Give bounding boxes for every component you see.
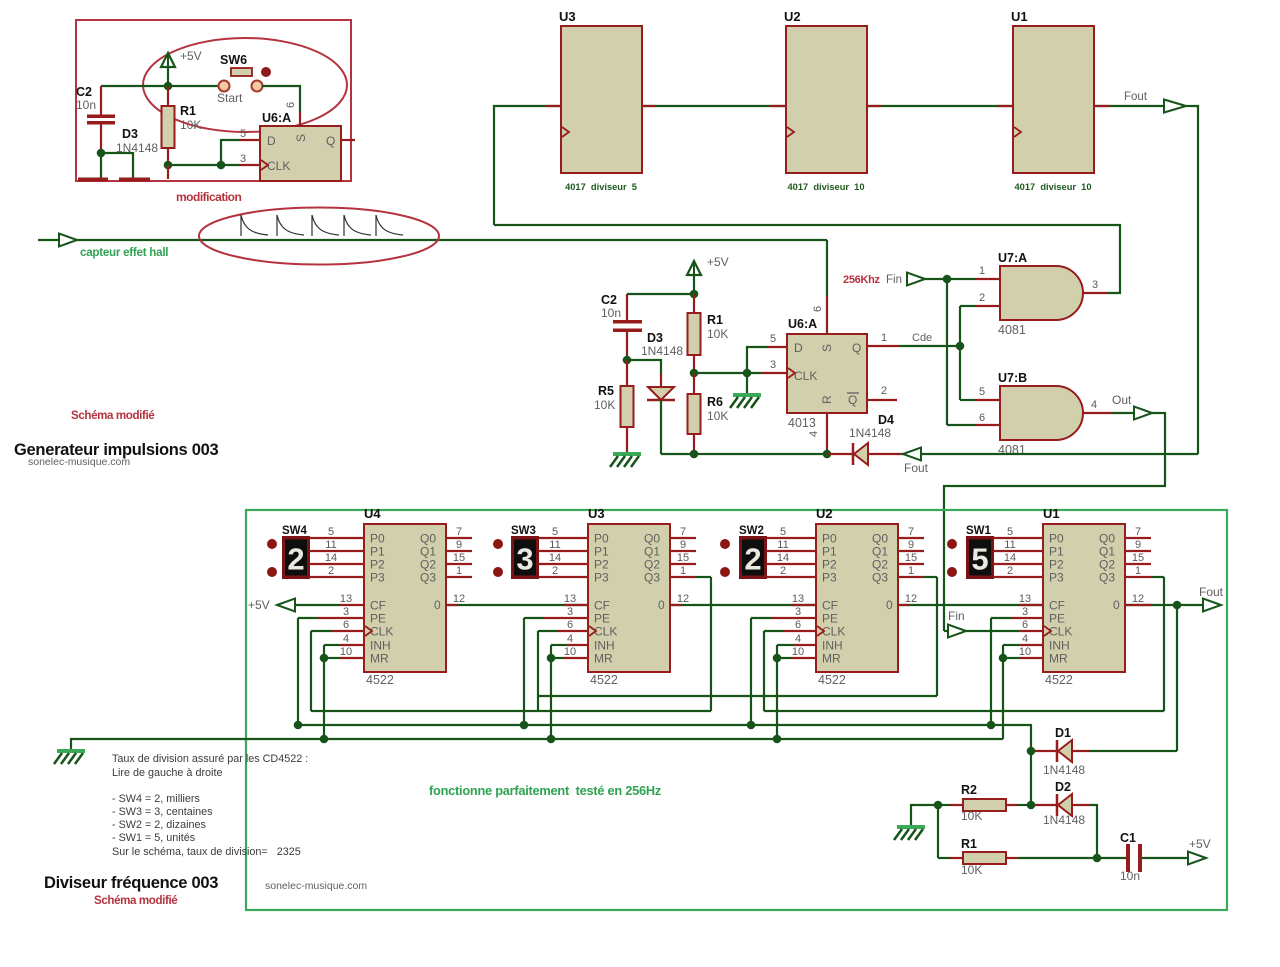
- wire U1 INH: [1002, 645, 1004, 739]
- svg-text:+5V: +5V: [707, 255, 729, 269]
- svg-text:Q2: Q2: [644, 558, 660, 572]
- wire U3 4017 to U2 4017: [641, 105, 786, 107]
- svg-text:P2: P2: [370, 558, 385, 572]
- svg-text:CLK: CLK: [794, 369, 817, 383]
- svg-text:P0: P0: [594, 532, 609, 546]
- svg-text:4522: 4522: [366, 673, 394, 687]
- svg-text:3: 3: [795, 606, 801, 618]
- arrow Fin: [948, 625, 966, 638]
- svg-text:15: 15: [677, 552, 689, 564]
- U1 clock input mark: [1014, 127, 1021, 137]
- svg-text:U6:A: U6:A: [788, 317, 817, 331]
- svg-text:3: 3: [516, 542, 533, 577]
- wire Q output stub (upper U6:A): [341, 139, 355, 141]
- wire U4 INH: [323, 645, 325, 739]
- svg-text:1: 1: [881, 332, 887, 344]
- wire U3 CLK: [537, 631, 539, 711]
- svg-text:5: 5: [971, 542, 988, 577]
- counter U4 CD4522 box: [364, 524, 446, 672]
- junction 256KHz branch: [943, 275, 952, 284]
- ground below R5: [613, 452, 641, 456]
- svg-text:10K: 10K: [961, 809, 982, 823]
- svg-text:S: S: [294, 134, 308, 142]
- svg-text:11: 11: [325, 539, 336, 551]
- junction Cde node: [956, 342, 965, 351]
- svg-text:CF: CF: [822, 599, 838, 613]
- wire ground rail MR/INH: [71, 739, 1003, 749]
- svg-text:U4: U4: [364, 506, 381, 521]
- svg-text:10: 10: [792, 646, 804, 658]
- svg-text:MR: MR: [370, 652, 389, 666]
- arrow Fout top output: [1164, 100, 1186, 113]
- svg-text:0: 0: [886, 598, 893, 612]
- svg-text:6: 6: [343, 619, 349, 631]
- arrow +5V (left): [277, 599, 295, 612]
- svg-text:Out: Out: [1112, 393, 1132, 407]
- junction U4 PE on PE rail: [294, 721, 303, 730]
- svg-text:4017 diviseur 10: 4017 diviseur 10: [1014, 182, 1091, 192]
- svg-text:sonelec-musique.com: sonelec-musique.com: [28, 456, 130, 468]
- arrow 256KHz input: [907, 273, 925, 286]
- svg-text:Taux de division assuré par le: Taux de division assuré par les CD4522 :: [112, 753, 308, 765]
- ground symbol left (divider): [57, 749, 85, 753]
- wire Cde to U7:A pin2 and U7:B pin5: [959, 306, 961, 400]
- junction C2 bottom / R5 top: [623, 356, 632, 365]
- red ellipse around pulse waveform: [199, 208, 439, 265]
- svg-text:Diviseur fréquence 003: Diviseur fréquence 003: [44, 874, 218, 892]
- svg-text:CF: CF: [370, 599, 386, 613]
- junction D1 on PE drop: [1027, 747, 1036, 756]
- svg-text:Q0: Q0: [420, 532, 436, 546]
- wire cascade U2.Q3 to U3.CLK: [538, 695, 937, 697]
- wire capteur effet hall signal line: [38, 239, 827, 241]
- wire U7:B output to Out arrow: [1083, 412, 1112, 414]
- svg-text:Q3: Q3: [420, 571, 436, 585]
- svg-text:13: 13: [792, 593, 804, 605]
- svg-text:10K: 10K: [961, 863, 982, 877]
- svg-text:Start: Start: [217, 91, 243, 105]
- SW1 contact dots: [947, 539, 957, 549]
- wire U2 INH: [776, 645, 778, 739]
- svg-text:11: 11: [1004, 539, 1015, 551]
- svg-text:2: 2: [552, 565, 558, 577]
- svg-text:SW6: SW6: [220, 53, 247, 67]
- resistor R1 (upper-left): [167, 86, 169, 106]
- svg-text:12: 12: [1132, 593, 1144, 605]
- wire Out down to Fin feed: [944, 413, 1165, 631]
- svg-text:2: 2: [287, 542, 304, 577]
- svg-text:P1: P1: [370, 545, 385, 559]
- resistor R2: [938, 804, 950, 806]
- wire Fout node down to D1: [1176, 605, 1178, 751]
- svg-text:Q2: Q2: [1099, 558, 1115, 572]
- svg-text:14: 14: [549, 552, 561, 564]
- junction R1/C1 node: [1093, 854, 1102, 863]
- svg-text:6: 6: [795, 619, 801, 631]
- svg-text:- SW2 = 2, dizaines: - SW2 = 2, dizaines: [112, 819, 207, 831]
- arrow Fout (pointing left): [903, 453, 1198, 455]
- junction C2 bottom: [97, 149, 106, 158]
- svg-text:4: 4: [343, 633, 349, 645]
- svg-text:CF: CF: [594, 599, 610, 613]
- junction U1 PE on PE rail: [987, 721, 996, 730]
- svg-text:U3: U3: [559, 9, 576, 24]
- wire 256KHz to U7:A pin1: [925, 278, 975, 280]
- wire from U7:A output feedback up-left to U3 4017 clock input: [494, 106, 561, 225]
- switch SW1 thumbwheel: [966, 536, 994, 579]
- svg-text:Q3: Q3: [872, 571, 888, 585]
- wires SW2 to U2 P0-P3: [766, 537, 816, 539]
- wire up to D pin (middle): [747, 347, 768, 373]
- wire R2 node to ground: [911, 805, 938, 825]
- wire R1 bottom to CLK: [168, 164, 240, 166]
- svg-text:U1: U1: [1011, 9, 1028, 24]
- arrow hall input: [59, 234, 77, 247]
- svg-text:U2: U2: [816, 506, 833, 521]
- junction CLK/D wire: [217, 161, 226, 170]
- counter U2 CD4522 box: [816, 524, 898, 672]
- capacitor C2 (middle): [626, 294, 628, 320]
- wire Qbar stub: [867, 399, 897, 401]
- svg-text:MR: MR: [822, 652, 841, 666]
- svg-text:PE: PE: [370, 612, 386, 626]
- svg-text:P2: P2: [594, 558, 609, 572]
- wire U3 0 output to U2 CF: [670, 604, 816, 606]
- svg-text:Fin: Fin: [886, 274, 902, 286]
- wire Fin from gates into divider: [944, 630, 948, 632]
- svg-text:1: 1: [680, 565, 686, 577]
- SW4 contact dots: [267, 539, 277, 549]
- svg-text:11: 11: [777, 539, 788, 551]
- wire U1 PE: [990, 618, 992, 725]
- svg-text:R1: R1: [180, 104, 196, 118]
- svg-text:5: 5: [552, 526, 558, 538]
- resistor R5: [626, 360, 628, 386]
- svg-text:R1: R1: [707, 313, 723, 327]
- counter U3 CD4522 box: [588, 524, 670, 672]
- svg-text:Fout: Fout: [1199, 585, 1224, 599]
- svg-text:15: 15: [1132, 552, 1144, 564]
- svg-text:1: 1: [456, 565, 462, 577]
- svg-text:1N4148: 1N4148: [1043, 763, 1085, 777]
- svg-text:Fout: Fout: [1124, 91, 1148, 103]
- svg-text:9: 9: [456, 539, 462, 551]
- svg-text:P2: P2: [1049, 558, 1064, 572]
- svg-text:10K: 10K: [707, 327, 728, 341]
- wire U2 PE: [750, 618, 752, 725]
- svg-text:10: 10: [1019, 646, 1031, 658]
- wire SW6 to U6:A S pin (upper): [262, 86, 300, 112]
- wires U3 Q0-Q2 stubs: [670, 537, 696, 539]
- wires U1 Q0-Q2 stubs: [1125, 537, 1151, 539]
- svg-text:Q0: Q0: [872, 532, 888, 546]
- wire U3 MR: [564, 657, 588, 659]
- wire U2 4017 to U1 4017: [867, 105, 1013, 107]
- svg-text:R1: R1: [961, 837, 977, 851]
- flip-flop U6:A (upper copy): [260, 126, 341, 181]
- svg-text:14: 14: [325, 552, 337, 564]
- svg-text:P2: P2: [822, 558, 837, 572]
- wire U6:A R pin down to Fout line: [826, 413, 828, 449]
- svg-text:13: 13: [564, 593, 576, 605]
- wires SW1 to U1 P0-P3: [993, 537, 1043, 539]
- junction +5V rail: [690, 290, 699, 299]
- junction U4 MR to INH wire: [320, 654, 329, 663]
- arrow Fout (divider output): [1203, 599, 1221, 612]
- wire U1 4017 output to Fout: [1094, 105, 1163, 107]
- svg-text:9: 9: [908, 539, 914, 551]
- svg-text:Q3: Q3: [1099, 571, 1115, 585]
- wire U3 Q3 to cascade clock: [670, 576, 696, 578]
- svg-text:9: 9: [680, 539, 686, 551]
- svg-text:D3: D3: [122, 127, 138, 141]
- svg-text:7: 7: [1135, 526, 1141, 538]
- svg-text:SW1: SW1: [966, 525, 992, 537]
- switch SW6: [219, 81, 230, 92]
- AND gate U7:B 4081: [1000, 386, 1083, 440]
- wire hall line down to U6:A S pin: [826, 240, 828, 296]
- svg-text:PE: PE: [594, 612, 610, 626]
- svg-text:CLK: CLK: [822, 625, 845, 639]
- svg-text:Q: Q: [326, 134, 335, 148]
- svg-text:Sur le schéma, taux de divisio: Sur le schéma, taux de division= 2325: [112, 846, 301, 858]
- svg-text:10K: 10K: [180, 118, 201, 132]
- svg-text:6: 6: [285, 102, 297, 108]
- switch SW4 thumbwheel: [282, 536, 310, 579]
- wire U2 Q3 to cascade clock: [898, 576, 924, 578]
- svg-text:1: 1: [979, 265, 985, 277]
- red stub into U3 4017 input: [546, 105, 561, 107]
- svg-text:10: 10: [340, 646, 352, 658]
- wires U4 Q0-Q2 stubs: [446, 537, 472, 539]
- svg-text:Fout: Fout: [904, 461, 929, 475]
- svg-text:2: 2: [881, 385, 887, 397]
- svg-text:INH: INH: [370, 639, 391, 653]
- wire PE rail: [298, 725, 1031, 805]
- svg-text:3: 3: [343, 606, 349, 618]
- AND gate U7:A 4081: [1000, 266, 1083, 320]
- svg-text:4013: 4013: [788, 416, 816, 430]
- svg-text:CF: CF: [1049, 599, 1065, 613]
- svg-text:D: D: [794, 341, 803, 355]
- wire +5V to C2 top: [627, 293, 694, 295]
- svg-text:2: 2: [780, 565, 786, 577]
- svg-text:10K: 10K: [594, 398, 615, 412]
- wire cascade U1.Q3 to U2.CLK: [764, 710, 1164, 712]
- svg-text:9: 9: [1135, 539, 1141, 551]
- wire cascade U3.Q3 to U4.CLK: [311, 710, 711, 712]
- svg-text:1N4148: 1N4148: [1043, 813, 1085, 827]
- svg-text:P1: P1: [822, 545, 837, 559]
- svg-text:P0: P0: [370, 532, 385, 546]
- IC U2 4017 divider box: [786, 26, 867, 173]
- wire U7:A output: [1083, 292, 1107, 294]
- svg-text:12: 12: [453, 593, 465, 605]
- svg-text:11: 11: [549, 539, 560, 551]
- svg-text:13: 13: [340, 593, 352, 605]
- svg-text:- SW3 = 3, centaines: - SW3 = 3, centaines: [112, 806, 213, 818]
- svg-text:MR: MR: [594, 652, 613, 666]
- svg-text:INH: INH: [1049, 639, 1070, 653]
- svg-text:CLK: CLK: [370, 625, 393, 639]
- diode D4: [827, 453, 853, 455]
- svg-text:1: 1: [908, 565, 914, 577]
- svg-text:U1: U1: [1043, 506, 1060, 521]
- svg-text:Cde: Cde: [912, 332, 932, 344]
- svg-text:Q: Q: [852, 341, 861, 355]
- resistor R1 (middle): [693, 294, 695, 313]
- svg-text:MR: MR: [1049, 652, 1068, 666]
- wire CLK line to U6:A: [694, 372, 762, 374]
- svg-text:Q0: Q0: [644, 532, 660, 546]
- svg-text:2: 2: [328, 565, 334, 577]
- ground bar segments at red box bottom: [78, 178, 108, 182]
- svg-text:14: 14: [777, 552, 789, 564]
- svg-text:D: D: [267, 134, 276, 148]
- arrow Out: [1134, 407, 1152, 420]
- svg-text:Q1: Q1: [1099, 545, 1115, 559]
- svg-text:10n: 10n: [1120, 869, 1140, 883]
- wire U4 MR: [340, 657, 364, 659]
- wire U4 Q3 stub: [446, 576, 472, 578]
- svg-text:+5V: +5V: [180, 49, 202, 63]
- diode D2: [1031, 804, 1057, 806]
- svg-text:2: 2: [744, 542, 761, 577]
- svg-text:4081: 4081: [998, 323, 1026, 337]
- svg-text:P1: P1: [594, 545, 609, 559]
- svg-text:256Khz: 256Khz: [843, 274, 881, 286]
- svg-text:R5: R5: [598, 384, 614, 398]
- junction U1 MR to INH wire: [999, 654, 1008, 663]
- wire U2 0 output to U1 CF: [898, 604, 1043, 606]
- svg-text:CLK: CLK: [1049, 625, 1072, 639]
- svg-text:7: 7: [908, 526, 914, 538]
- svg-text:6: 6: [1022, 619, 1028, 631]
- IC U3 4017 divider box: [561, 26, 642, 173]
- svg-text:4: 4: [1091, 399, 1097, 411]
- svg-text:12: 12: [677, 593, 689, 605]
- diode D3 (middle): [660, 374, 662, 387]
- svg-text:+5V: +5V: [1189, 837, 1211, 851]
- svg-text:U3: U3: [588, 506, 605, 521]
- arrow +5V bottom right: [1188, 852, 1206, 865]
- junction U3 PE on PE rail: [520, 721, 529, 730]
- wire U4 PE: [297, 618, 299, 725]
- svg-text:Schéma modifié: Schéma modifié: [94, 894, 178, 907]
- wire Fout feedback down right side: [1186, 106, 1198, 454]
- svg-text:D1: D1: [1055, 726, 1071, 740]
- svg-text:Schéma modifié: Schéma modifié: [71, 409, 155, 422]
- SW3 contact dots: [493, 539, 503, 549]
- svg-text:modification: modification: [176, 190, 242, 204]
- svg-text:Q2: Q2: [872, 558, 888, 572]
- wires SW4 to U4 P0-P3: [309, 537, 364, 539]
- ground symbol bottom-right: [897, 825, 925, 829]
- svg-text:Lire de gauche à droite: Lire de gauche à droite: [112, 767, 222, 779]
- junction at R1 top: [164, 82, 173, 91]
- svg-text:Q1: Q1: [644, 545, 660, 559]
- wire R2 node down to R1: [937, 805, 939, 858]
- svg-text:U7:A: U7:A: [998, 251, 1027, 265]
- svg-text:Q1: Q1: [420, 545, 436, 559]
- resistor R6: [693, 373, 695, 394]
- svg-text:4: 4: [1022, 633, 1028, 645]
- svg-text:D4: D4: [878, 413, 894, 427]
- svg-text:4522: 4522: [1045, 673, 1073, 687]
- svg-text:C2: C2: [601, 293, 617, 307]
- svg-text:15: 15: [905, 552, 917, 564]
- wire U1 Q3 to cascade clock: [1125, 576, 1151, 578]
- junction U2 PE on PE rail: [747, 721, 756, 730]
- svg-text:D3: D3: [647, 331, 663, 345]
- svg-text:5: 5: [328, 526, 334, 538]
- svg-text:Q2: Q2: [420, 558, 436, 572]
- svg-text:R2: R2: [961, 783, 977, 797]
- wire to diode D3 top: [627, 360, 661, 374]
- svg-text:sonelec-musique.com: sonelec-musique.com: [265, 880, 367, 892]
- svg-text:D2: D2: [1055, 780, 1071, 794]
- capacitor C1: [1097, 857, 1128, 859]
- svg-text:7: 7: [456, 526, 462, 538]
- power +5V symbol (middle): [687, 261, 701, 275]
- svg-text:0: 0: [1113, 598, 1120, 612]
- svg-text:0: 0: [658, 598, 665, 612]
- wire U1 0 output to Fout: [1125, 604, 1203, 606]
- junction Fout node: [1173, 601, 1182, 610]
- svg-text:4522: 4522: [818, 673, 846, 687]
- svg-text:5: 5: [770, 333, 776, 345]
- wire feedback horizontal to U7:A output: [494, 225, 1120, 293]
- svg-text:7: 7: [680, 526, 686, 538]
- wire U4 0 output to U3 CF: [446, 604, 588, 606]
- wire U3 PE: [523, 618, 525, 725]
- wire up to D pin: [221, 140, 240, 165]
- svg-text:Q3: Q3: [644, 571, 660, 585]
- junction U3 MR to INH wire: [547, 654, 556, 663]
- capacitor C2 (upper-left): [100, 86, 102, 115]
- svg-text:5: 5: [1007, 526, 1013, 538]
- svg-text:5: 5: [979, 386, 985, 398]
- wire Q to Cde node: [867, 345, 900, 347]
- svg-text:Q0: Q0: [1099, 532, 1115, 546]
- svg-text:U6:A: U6:A: [262, 111, 291, 125]
- svg-text:U7:B: U7:B: [998, 371, 1027, 385]
- svg-text:P0: P0: [822, 532, 837, 546]
- wire U2 CLK: [763, 631, 765, 711]
- svg-text:Fin: Fin: [948, 609, 965, 623]
- red ellipse highlight (modification): [143, 38, 347, 132]
- junction R6 bottom on Fout line: [690, 450, 699, 459]
- svg-text:PE: PE: [1049, 612, 1065, 626]
- wire U3 INH: [550, 645, 552, 739]
- wires U2 Q0-Q2 stubs: [898, 537, 924, 539]
- svg-text:3: 3: [770, 359, 776, 371]
- svg-text:10K: 10K: [707, 409, 728, 423]
- green box frequency divider: [246, 510, 1227, 910]
- svg-text:13: 13: [1019, 593, 1031, 605]
- wire +5V to U4 CF: [295, 604, 340, 606]
- svg-text:Q: Q: [848, 393, 857, 407]
- wire Fin arrow to U1 CLK: [966, 630, 1019, 632]
- svg-text:6: 6: [812, 306, 824, 312]
- svg-text:U2: U2: [784, 9, 801, 24]
- svg-text:+5V: +5V: [248, 598, 270, 612]
- junction D-wire/ground node: [743, 369, 752, 378]
- svg-text:4522: 4522: [590, 673, 618, 687]
- svg-text:R: R: [820, 395, 834, 404]
- switch SW3 thumbwheel: [511, 536, 539, 579]
- wire U1 MR: [1019, 657, 1043, 659]
